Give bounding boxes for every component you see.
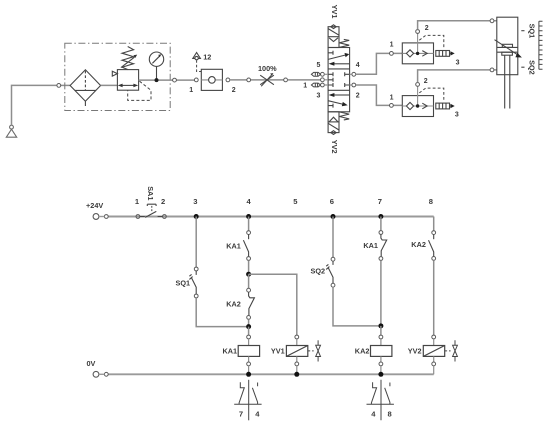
pressure regulator [112,47,151,101]
junction node col4 top [246,214,251,219]
svg-text:YV1: YV1 [330,5,339,19]
svg-text:100%: 100% [258,64,277,73]
svg-text:2: 2 [424,78,428,85]
cross-reference table KA1 [234,380,261,421]
svg-text:2: 2 [232,87,236,94]
coil KA1 [238,335,259,374]
svg-text:KA2: KA2 [355,347,370,356]
svg-text:3: 3 [193,197,197,206]
wire SQ2 to col7 junction [333,287,378,326]
junction node col7 top [378,214,383,219]
svg-text:1: 1 [390,94,394,101]
sensor SQ1 mark [521,30,524,32]
node port 5 [321,72,325,76]
contact KA1 (NC) col7 [379,231,387,261]
node port 2 [352,83,356,87]
solenoid pilot YV1 (top) [328,25,349,48]
wire to KA1 coil [248,327,250,336]
cylinder [495,17,522,108]
silencer on port 5 [311,72,320,76]
svg-text:YV1: YV1 [271,347,285,356]
svg-text:12: 12 [203,52,211,61]
shut-off valve with pilot 12 [193,53,223,91]
valve symbol YV1 [308,340,321,361]
node upper fc port 1 [390,52,394,56]
node lower fc port 2 [416,83,420,87]
coil YV2 [423,335,444,374]
air source [6,125,16,137]
junction node col6 top [331,214,336,219]
contact SQ2 (NO limit switch) [326,257,335,287]
node valve port 2 [226,78,230,82]
svg-text:SQ2: SQ2 [311,266,326,275]
svg-text:KA2: KA2 [226,299,241,308]
upper flow control valve [402,33,454,63]
silencer on port 3 [311,83,320,87]
wire junction to KA2 contact [248,274,250,288]
node port 4 [352,72,356,76]
contact KA2 (NC) col4 [247,288,255,319]
FRL enclosure (dash-dot) [65,43,170,110]
wire SQ1 to col4 lower junction [196,298,246,327]
wire upper fc to cylinder top port [418,21,497,30]
junction node col3 top [194,214,199,219]
svg-text:3: 3 [455,111,459,118]
wire throttle to 5/3 valve port 1 [288,79,321,81]
svg-text:SQ2: SQ2 [527,60,536,75]
wire col4 rail to KA1 contact [248,217,250,231]
junction col7 lower [378,323,383,328]
solenoid pilot YV2 (bottom) [328,112,349,135]
node port 1 [321,78,325,82]
svg-text:2: 2 [161,197,165,206]
wire KA1 col7 to junction [380,260,382,326]
svg-text:3: 3 [317,93,321,100]
junction lower fc [416,104,419,107]
stubs ports left [324,74,328,85]
svg-text:YV2: YV2 [408,347,422,356]
wire regulator to gauge node and out [139,79,195,81]
node throttle out [284,78,288,82]
svg-text:KA1: KA1 [363,241,378,250]
wire col3 down to SQ1 [195,217,197,268]
wire col8 to YV2 coil [433,260,435,335]
junction col4 mid [246,272,251,277]
contact KA1 (NO) col4 [243,231,250,261]
contact SQ1 (NO limit switch) [189,267,198,298]
junction upper fc [416,52,419,55]
node throttle in [247,78,251,82]
cross-reference table KA2 [367,380,394,421]
5/3 directional valve body [328,48,350,112]
wire KA1 to junction [248,260,250,274]
5/3 valve middle position blocked ports [328,72,350,87]
node port 3 [321,83,325,87]
svg-text:3: 3 [456,59,460,66]
node upper fc port 2 [416,30,420,34]
node cylinder top port [490,19,494,23]
wire filter to regulator [101,84,118,86]
svg-text:2: 2 [356,93,360,100]
5/3 valve top position arrows [328,51,350,66]
wire valve to throttle [230,79,284,81]
svg-text:4: 4 [356,62,360,69]
node lower fc port 1 [390,104,394,108]
junction col4 lower [246,324,251,329]
svg-text:KA1: KA1 [223,347,238,356]
wire col7 rail to KA1 contact [380,217,382,231]
wire port 2 to lower flow control [356,85,403,105]
+24V rail [93,214,434,220]
coil YV1 [286,335,307,374]
svg-text:7: 7 [239,409,243,418]
svg-text:SA1: SA1 [146,186,155,200]
svg-text:5: 5 [317,62,321,69]
throttle valve 100% [260,73,274,86]
0V rail [93,371,434,377]
node source-FRL [57,84,61,88]
junction gauge [155,78,159,82]
junction col7 bottom [378,372,383,377]
svg-text:0V: 0V [87,359,96,368]
node FRL output [173,78,177,82]
pressure gauge [149,52,163,80]
coil KA2 [371,335,392,374]
valve symbol YV2 [445,340,458,361]
junction col5 bottom [294,372,299,377]
svg-text:KA1: KA1 [226,241,241,250]
svg-text:SQ1: SQ1 [527,24,536,39]
stubs ports right [350,74,352,85]
svg-text:SQ1: SQ1 [176,278,191,287]
svg-text:8: 8 [388,409,392,418]
sensor SQ2 mark [521,66,524,68]
node cylinder bottom port [490,68,494,72]
switch SA1 [136,204,166,218]
svg-text:8: 8 [429,197,433,206]
junction col4 bottom [246,372,251,377]
wire lower fc to cylinder bottom port [418,70,497,83]
svg-text:2: 2 [425,25,429,32]
wire port 4 to upper flow control [356,53,403,74]
contact KA2 (NO) col8 [429,231,436,261]
node valve port 1 [194,78,198,82]
wire branch to YV1 column [249,274,297,335]
position scale ruler [539,21,543,69]
svg-text:1: 1 [390,41,394,48]
wire col8 from rail corner down [433,217,435,231]
wire KA2 to lower junction [248,319,250,326]
svg-text:1: 1 [189,87,193,94]
lower flow control valve [402,86,454,116]
svg-text:+24V: +24V [86,201,103,210]
svg-text:YV2: YV2 [330,140,339,154]
wire col6 down to SQ2 [332,217,334,258]
svg-text:KA2: KA2 [411,240,426,249]
wire source to FRL unit [12,85,71,125]
svg-text:1: 1 [303,83,307,90]
svg-text:6: 6 [330,197,334,206]
filter F [70,70,101,106]
svg-text:7: 7 [378,197,382,206]
wire to KA2 coil [380,326,382,335]
5/3 valve bottom position arrows [328,93,350,108]
